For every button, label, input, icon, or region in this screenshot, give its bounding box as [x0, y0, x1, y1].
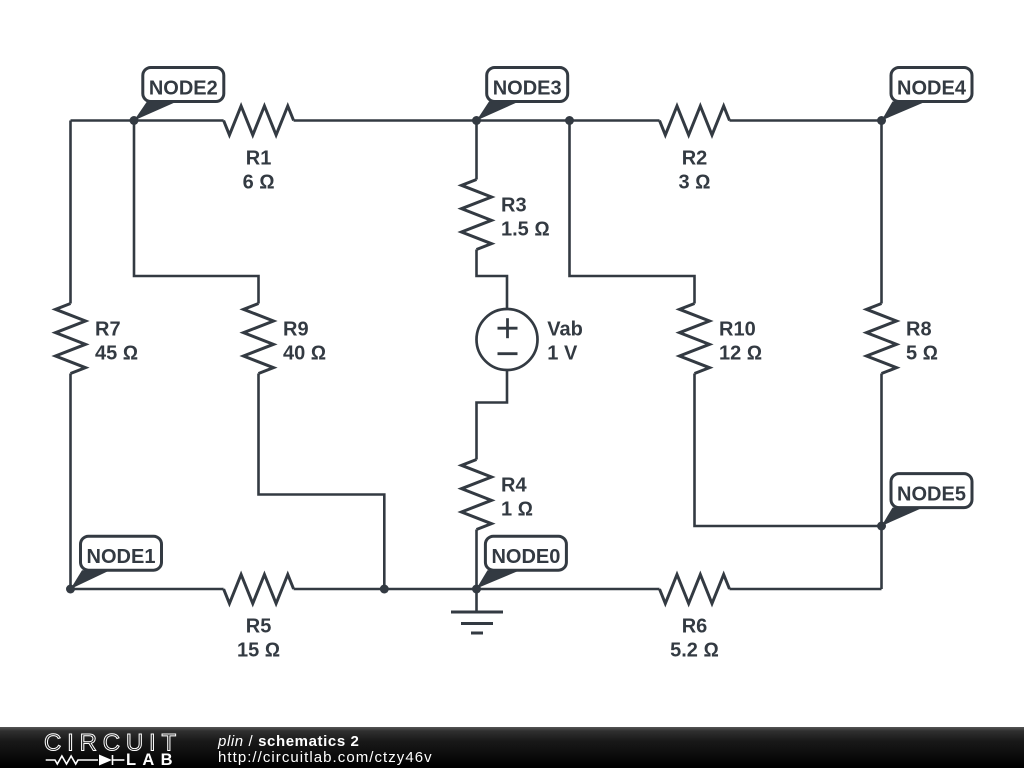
- svg-text:R10: R10: [719, 319, 756, 341]
- svg-text:NODE4: NODE4: [897, 78, 967, 100]
- svg-text:R6: R6: [682, 616, 708, 638]
- svg-text:http://circuitlab.com/ctzy46v: http://circuitlab.com/ctzy46v: [218, 749, 433, 766]
- svg-text:NODE5: NODE5: [897, 484, 966, 506]
- svg-text:1 Ω: 1 Ω: [501, 499, 533, 521]
- svg-text:R5: R5: [246, 616, 272, 638]
- svg-text:R7: R7: [95, 319, 121, 341]
- svg-text:5 Ω: 5 Ω: [906, 343, 938, 365]
- svg-text:NODE3: NODE3: [493, 78, 562, 100]
- svg-text:LAB: LAB: [126, 751, 179, 768]
- svg-text:R4: R4: [501, 475, 527, 497]
- svg-text:1 V: 1 V: [547, 343, 578, 365]
- svg-text:R3: R3: [501, 195, 527, 217]
- svg-text:1.5 Ω: 1.5 Ω: [501, 219, 550, 241]
- svg-text:NODE2: NODE2: [149, 78, 218, 100]
- svg-text:NODE1: NODE1: [87, 546, 156, 568]
- svg-text:R2: R2: [682, 148, 708, 170]
- svg-text:R8: R8: [906, 319, 932, 341]
- svg-text:R1: R1: [246, 148, 272, 170]
- svg-text:plin / schematics 2: plin / schematics 2: [217, 733, 360, 750]
- svg-text:15 Ω: 15 Ω: [237, 640, 280, 662]
- svg-text:45 Ω: 45 Ω: [95, 343, 138, 365]
- svg-text:5.2 Ω: 5.2 Ω: [670, 640, 719, 662]
- svg-text:NODE0: NODE0: [491, 546, 560, 568]
- svg-text:R9: R9: [283, 319, 309, 341]
- svg-text:40 Ω: 40 Ω: [283, 343, 326, 365]
- svg-text:6 Ω: 6 Ω: [243, 172, 275, 194]
- svg-text:12 Ω: 12 Ω: [719, 343, 762, 365]
- svg-text:Vab: Vab: [547, 319, 583, 341]
- svg-text:3 Ω: 3 Ω: [678, 172, 710, 194]
